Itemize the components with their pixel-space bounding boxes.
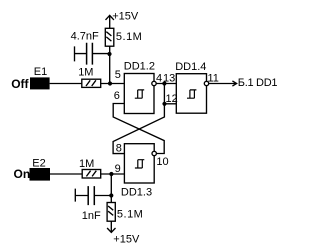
svg-text:4.7nF: 4.7nF (71, 30, 99, 42)
svg-text:E1: E1 (34, 66, 47, 78)
svg-text:11: 11 (208, 73, 219, 85)
svg-text:6: 6 (114, 90, 120, 102)
svg-text:13: 13 (163, 72, 175, 84)
svg-text:+15V: +15V (113, 234, 140, 246)
svg-text:DD1.4: DD1.4 (175, 61, 206, 73)
svg-text:1nF: 1nF (82, 210, 101, 222)
svg-text:1M: 1M (78, 66, 93, 78)
svg-text:10: 10 (156, 156, 168, 168)
svg-text:9: 9 (115, 163, 121, 175)
svg-text:E2: E2 (32, 157, 45, 169)
svg-text:On: On (14, 167, 31, 181)
svg-text:DD1.3: DD1.3 (121, 187, 152, 199)
svg-text:5.1M: 5.1M (117, 209, 143, 221)
svg-text:5: 5 (115, 69, 121, 81)
svg-text:Б.1 DD1: Б.1 DD1 (238, 77, 278, 89)
svg-text:5.1M: 5.1M (116, 31, 142, 43)
svg-text:+15V: +15V (112, 11, 139, 23)
svg-text:DD1.2: DD1.2 (124, 61, 155, 73)
svg-text:12: 12 (166, 93, 178, 105)
svg-text:4: 4 (156, 73, 162, 85)
svg-text:1M: 1M (79, 158, 94, 170)
svg-text:Off: Off (11, 77, 29, 91)
svg-text:8: 8 (116, 142, 122, 154)
